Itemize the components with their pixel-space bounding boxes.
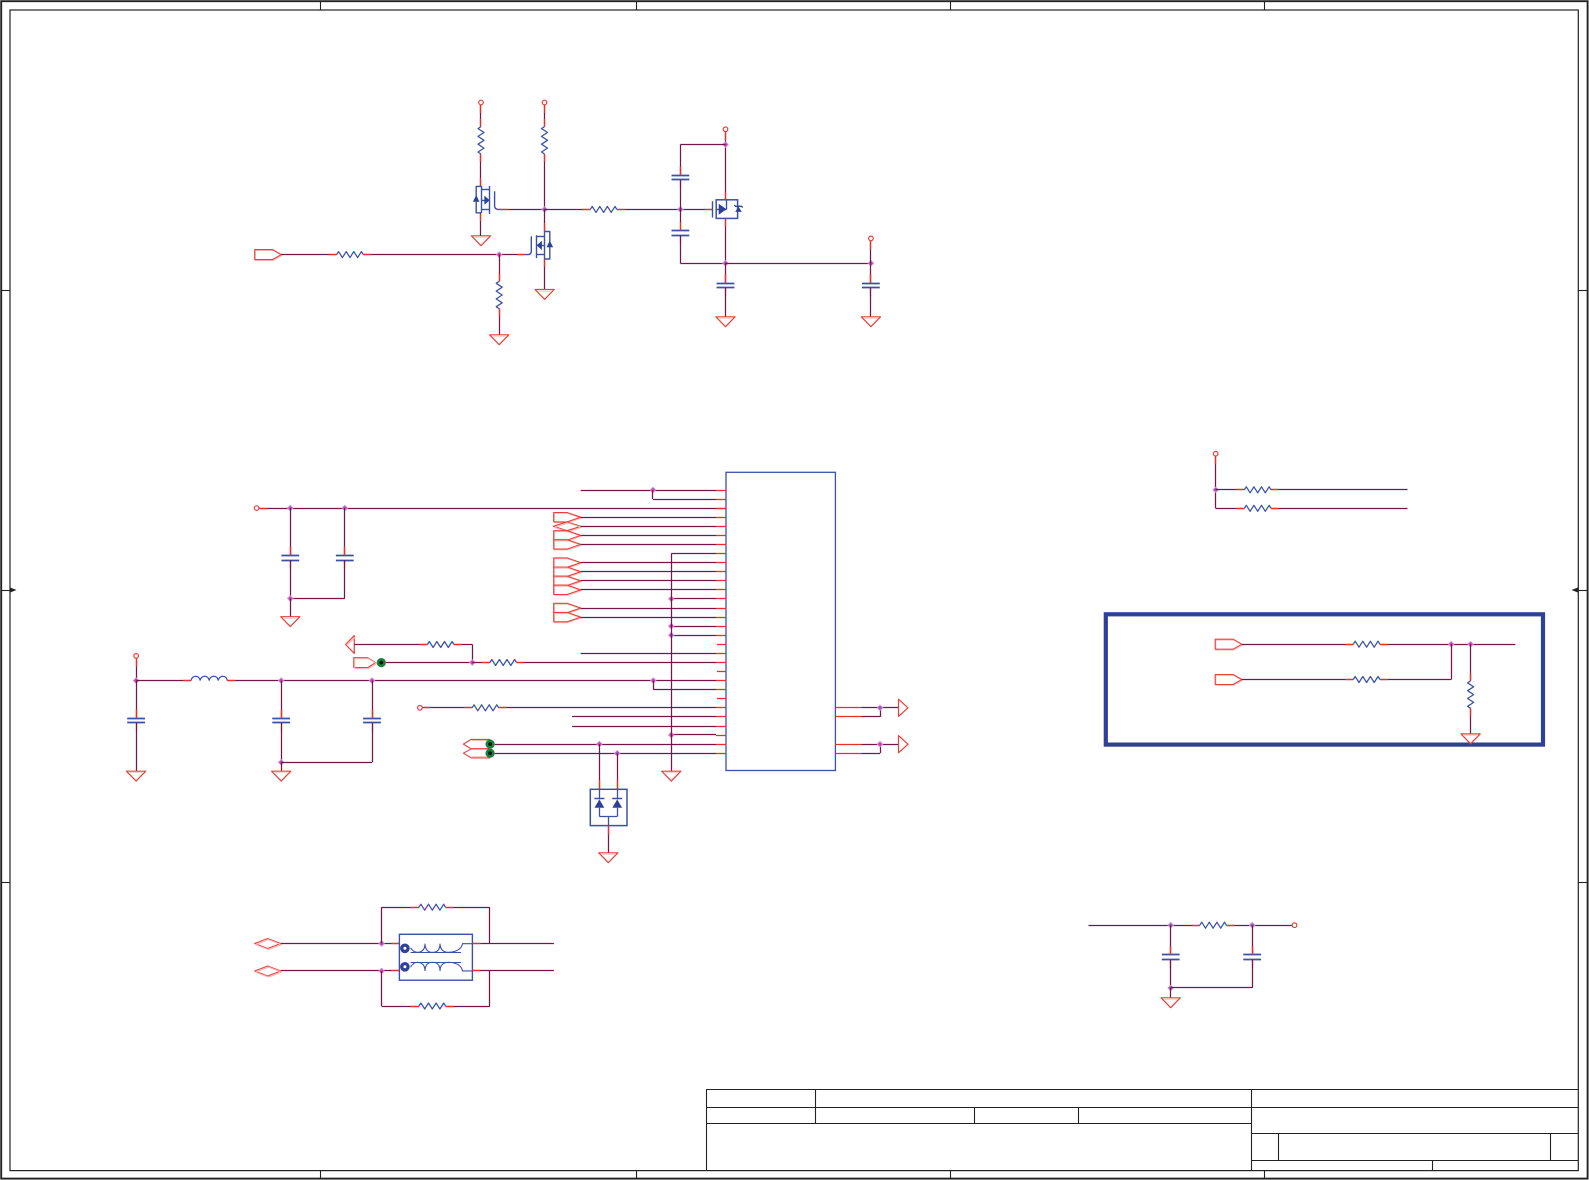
wire net P1 to R1 <box>480 105 482 127</box>
capacitor C5 <box>363 710 381 732</box>
resistor R14 <box>1353 677 1380 683</box>
capacitor C2 <box>336 547 354 569</box>
port ARROW-OUT1 <box>899 699 909 716</box>
junction J24 <box>279 760 284 765</box>
wire wire pin29 <box>495 744 716 746</box>
transistor Q3 <box>713 200 743 219</box>
wire wire tag 617.1 <box>581 617 716 619</box>
wire wire pin16 gnd <box>671 626 716 628</box>
resistor R5 <box>496 281 502 308</box>
port PORT-A1 <box>554 513 582 523</box>
title block <box>706 1089 1578 1171</box>
port PORT-FB <box>354 658 377 669</box>
resistor R16 <box>1200 922 1227 928</box>
resistor R8 <box>472 705 499 711</box>
port PORT-X2 <box>1215 675 1242 686</box>
junction J4 <box>723 261 728 266</box>
wire net Q1 source to ground <box>480 213 482 236</box>
wire wire ground bus <box>671 554 673 772</box>
border center arrow left <box>2 587 17 593</box>
junction J11 <box>669 596 674 601</box>
ground G4 <box>490 335 509 345</box>
ground G12 <box>1161 998 1180 1008</box>
wire net to C5 <box>372 681 374 719</box>
port P3 <box>723 127 728 132</box>
capacitor C1 <box>281 547 299 569</box>
wire net X1 to R13 <box>1242 644 1353 646</box>
port ARROW-OUT2 <box>899 736 909 753</box>
wire net rail to cap C11 <box>870 263 872 283</box>
junction J1 <box>542 207 547 212</box>
wire net R7 to pin20 <box>517 662 717 664</box>
junction J21 <box>279 678 284 683</box>
resistor R9 <box>419 904 446 910</box>
wire net D1 to ground <box>608 826 610 853</box>
wire net bypass bot <box>382 971 420 1007</box>
junction J19 <box>470 660 475 665</box>
wire net bypass top <box>382 907 420 943</box>
resistor R11 <box>1244 487 1271 493</box>
wire net R12 out <box>1271 508 1408 510</box>
wire wire pin13 gnd <box>671 598 716 600</box>
junction J22 <box>369 678 374 683</box>
junction J15 <box>597 741 602 746</box>
wire wire tag 526.3 <box>581 526 716 528</box>
junction J16 <box>615 751 620 756</box>
junction J26 <box>379 968 384 973</box>
port P9 <box>1292 923 1297 928</box>
capacitor C8 <box>672 167 690 189</box>
wire net bootstrap top <box>680 145 725 176</box>
wire wire pin1 <box>581 490 716 492</box>
wire net bypass top right <box>446 907 490 943</box>
junction J2 <box>678 207 683 212</box>
wire wire out1 lower <box>862 708 881 717</box>
port PORT-C2 <box>554 612 582 622</box>
wire wire tag 517.2 <box>581 517 716 519</box>
port PORT-B3 <box>554 576 582 586</box>
junction J32 <box>1168 985 1173 990</box>
wire wire pin19 <box>581 653 716 655</box>
transistor Q2 <box>525 231 553 259</box>
wire net C4 gnd stub <box>281 762 283 771</box>
wire net node B to R5 <box>499 255 501 282</box>
wire net R2 to node A <box>544 154 546 209</box>
port DIAMOND-1 <box>255 939 282 950</box>
node D1 green dot <box>486 740 495 749</box>
junction J20 <box>133 678 138 683</box>
wire net C4 down <box>281 723 283 763</box>
port PORT-D2 <box>463 749 490 758</box>
wire net C1 bottom <box>290 560 292 599</box>
junction J31 <box>1250 923 1255 928</box>
wire net choke out2 <box>472 970 554 972</box>
wire wire tag 562.6 <box>581 562 716 564</box>
ground G2 <box>716 317 735 327</box>
wire net top to R11 <box>1216 489 1245 491</box>
ground G8 <box>127 771 146 781</box>
wire wire tag 544.4 <box>581 544 716 546</box>
wire net R8 to pin25 <box>499 707 716 709</box>
wire wire tag 580.8 <box>581 580 716 582</box>
wire wire tag 571.7 <box>581 571 716 573</box>
wire wire pin30 <box>495 753 716 755</box>
capacitor C4 <box>272 710 290 732</box>
wire wire pin17 gnd <box>671 635 716 637</box>
wire net VCC rail <box>259 508 726 510</box>
wire net choke out1 <box>472 943 554 945</box>
wire wire tag 608.0 <box>581 608 716 610</box>
wire net to L1 <box>136 680 191 682</box>
wire wire pin26 <box>572 716 716 718</box>
wire net C2 bottom <box>290 560 345 599</box>
port ARROW-FB <box>346 636 356 654</box>
wire net cap C10 to ground <box>725 288 727 317</box>
wire net to C6 <box>1170 925 1172 955</box>
wire net D2 drop <box>617 753 619 789</box>
capacitor C10 <box>717 274 735 296</box>
wire net pi in <box>1089 925 1200 927</box>
wire net to C4 <box>281 681 283 719</box>
wire net C6 down <box>1170 960 1172 988</box>
wire net to R15 <box>1470 644 1472 681</box>
wire net FB to junction <box>386 662 472 664</box>
wire net C5 bottom <box>281 723 372 763</box>
port P4 <box>869 236 874 241</box>
capacitor C7 <box>1243 946 1261 968</box>
wire wire tag 535.4 <box>581 535 716 537</box>
wire net to C3 <box>136 681 138 719</box>
U1 right pin stubs <box>835 708 861 754</box>
wire net pi out <box>1226 925 1292 927</box>
wire net branch pin23 <box>653 681 716 690</box>
resistor R10 <box>419 1003 446 1009</box>
resistor R12 <box>1244 505 1271 511</box>
group box <box>1106 614 1543 744</box>
wire net X2 to R14 <box>1242 679 1353 681</box>
wire net to C7 <box>1252 925 1254 955</box>
wire net VCC to C2 <box>344 508 346 555</box>
junction J30 <box>1168 923 1173 928</box>
wire net R11 out <box>1271 489 1408 491</box>
wire net L1 to pin22 <box>227 680 716 682</box>
wire net D1 drop <box>599 744 601 789</box>
wire net P4 to rail <box>870 241 872 263</box>
wire wire pin27 <box>572 726 716 728</box>
port PORT-A4 <box>554 540 582 550</box>
resistor R3 <box>590 206 617 212</box>
wire net Q1 gate <box>501 209 545 211</box>
ground G3 <box>861 317 880 327</box>
wire net R6 corner <box>454 645 473 663</box>
wire net gate node to cap C9 <box>680 209 682 230</box>
port PORT-C1 <box>554 603 582 613</box>
wire net pi gnd stub <box>1170 988 1172 998</box>
port PORT-IN <box>255 250 282 261</box>
junction J25 <box>379 941 384 946</box>
wire net P3 rail <box>725 132 727 200</box>
wire wire out2 lower <box>862 744 881 753</box>
wire net R15 to ground <box>1470 708 1472 734</box>
wire wire tag 589.8 <box>581 589 716 591</box>
wire wire pin8 gnd corner <box>671 553 716 555</box>
port PORT-B4 <box>554 585 582 595</box>
ground G6 <box>281 617 300 627</box>
ground G7 <box>662 771 681 781</box>
resistor R1 <box>478 127 484 154</box>
wire net arrow to R6 <box>354 644 427 646</box>
port DIAMOND-2 <box>255 966 282 977</box>
wire net C7 bottom <box>1171 960 1253 988</box>
port P8 <box>1213 451 1218 456</box>
port P5 <box>254 506 259 511</box>
op-amp U1 <box>726 472 835 770</box>
wire wire pin28 gnd <box>671 734 716 736</box>
junction J29 <box>1468 642 1473 647</box>
wire net P2 to R2 <box>544 105 546 127</box>
resistor R4 <box>337 252 364 258</box>
wire wire out1 <box>862 707 899 709</box>
wire net Q3 source <box>725 218 727 263</box>
ground G1 <box>471 236 490 246</box>
wire net input to R4 <box>281 254 336 256</box>
wire net junction to R7 <box>472 662 490 664</box>
wire net R14 up <box>1380 644 1452 679</box>
wire net Q2 source to ground <box>544 259 546 289</box>
transistor Q1 <box>473 186 501 214</box>
wire net R5 to ground <box>499 309 501 335</box>
junction J6 <box>497 252 502 257</box>
wire net node A to R3 <box>545 209 591 211</box>
wire net to ground G6 <box>290 599 292 617</box>
node FB green dot <box>377 658 386 667</box>
junction J8 <box>342 505 347 510</box>
port P7 <box>418 706 423 711</box>
ground G5 <box>535 290 554 300</box>
U1 left pin stubs <box>716 491 726 754</box>
junction J28 <box>1449 642 1454 647</box>
junction J18 <box>877 742 882 747</box>
capacitor C3 <box>127 710 145 732</box>
node D2 green dot <box>486 749 495 758</box>
junction J10 <box>650 487 655 492</box>
port P6 <box>134 654 139 659</box>
border center arrow right <box>1572 587 1588 593</box>
wire net VCC to C1 <box>290 508 292 555</box>
port PORT-D1 <box>463 739 490 748</box>
junction J5 <box>868 261 873 266</box>
port PORT-A2 (bidir) <box>553 522 581 532</box>
port PORT-X1 <box>1215 639 1242 650</box>
resistor R7 <box>490 660 517 666</box>
resistor R15 <box>1468 681 1474 708</box>
port P1 <box>479 100 484 105</box>
junction J7 <box>288 505 293 510</box>
wire net R3 to Q3 gate <box>617 209 713 211</box>
wire net R1 to Q1 drain <box>480 154 482 186</box>
wire net R13 out <box>1380 644 1516 646</box>
diode D1 (dual) <box>590 789 627 825</box>
junction J3 <box>723 142 728 147</box>
port PORT-A3 <box>554 531 582 541</box>
wire net bypass bot right <box>446 971 490 1007</box>
resistor R13 <box>1353 641 1380 647</box>
capacitor C9 <box>672 222 690 244</box>
wire net cap C11 to ground <box>870 288 872 317</box>
wire net diamond1 to choke <box>281 943 400 945</box>
wire net cap C8 to gate node <box>680 180 682 210</box>
junction J12 <box>669 623 674 628</box>
junction J23 <box>651 678 656 683</box>
wire net P6 down <box>136 659 138 681</box>
junction J13 <box>669 633 674 638</box>
resistor R6 <box>427 642 454 648</box>
capacitor C11 <box>862 274 880 296</box>
inductor L1 <box>191 676 227 680</box>
junction J27 <box>1213 487 1218 492</box>
ground G9 <box>272 771 291 781</box>
wire wire pin2 branch <box>653 490 717 500</box>
capacitor C6 <box>1162 946 1180 968</box>
wire net switch rail <box>726 263 871 265</box>
ground G10 <box>599 853 618 863</box>
inductor T1 common-mode choke <box>399 934 472 980</box>
ground G11 <box>1461 734 1480 744</box>
junction J17 <box>877 705 882 710</box>
port PORT-B2 <box>554 567 582 577</box>
junction J14 <box>669 732 674 737</box>
wire net bot to R12 <box>1216 508 1245 510</box>
wire net cap C9 to rail <box>680 235 725 263</box>
resistor R2 <box>542 127 548 154</box>
wire net diamond2 to choke <box>281 970 400 972</box>
wire net C3 to ground <box>136 723 138 771</box>
port PORT-B1 <box>554 558 582 568</box>
wire net rail to cap C10 <box>725 263 727 283</box>
wire wire out2 <box>862 744 899 746</box>
port P2 <box>542 100 547 105</box>
wire net P8 down <box>1215 456 1217 508</box>
wire net P7 to R8 <box>423 707 473 709</box>
wire net R4 to Q2 gate <box>363 254 525 256</box>
wire net node A to Q2 drain <box>544 209 546 231</box>
junction J9 <box>288 596 293 601</box>
